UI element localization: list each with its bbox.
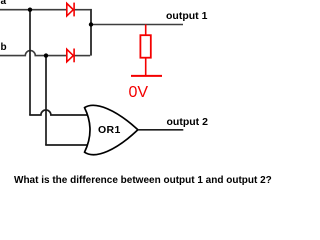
node junction b [44,53,48,57]
label output 1 [166,10,207,22]
resistor R1 lead bottom [145,58,147,76]
label 0V [129,84,149,102]
wire vertical diode bus [90,9,92,56]
diode D1 [67,3,74,17]
wire diode2 cathode to bus [75,55,91,57]
wire output 2 [138,129,183,131]
OR gate OR1 body [85,105,138,154]
ground 0V rail [131,75,162,77]
node junction output1 bus [89,22,93,26]
label output 2 [167,116,208,128]
node junction a [28,8,32,12]
resistor R1 body [140,35,150,58]
wire b branch to OR lower input [45,144,93,146]
wire vertical from b junction [45,56,47,145]
wire a branch to OR upper input with hop [29,110,93,115]
wire diode1 cathode to corner [75,9,91,11]
resistor R1 lead top [145,25,147,36]
label a [1,0,7,7]
wire vertical from a junction [29,10,31,115]
wire input b with hop over vertical a [0,51,66,56]
caption question [14,175,272,186]
label OR1 [98,124,121,136]
wire input a [0,9,66,11]
diode D2 [67,49,74,63]
label b [1,42,7,53]
wire output 1 [91,24,183,26]
